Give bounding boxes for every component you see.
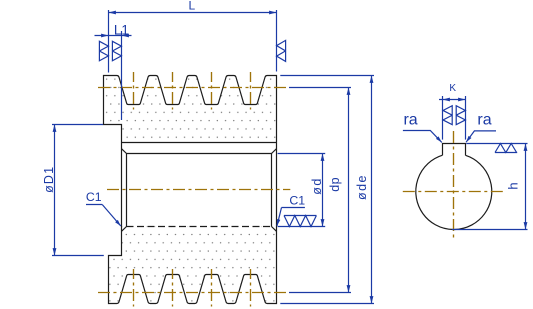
svg-text:C1: C1	[86, 190, 102, 204]
dim h: bottom extension line	[452, 229, 528, 231]
svg-text:ra: ra	[477, 112, 491, 129]
pitch diameter centerline bottom	[98, 292, 289, 294]
ra left: leader	[403, 131, 442, 143]
bore top edge	[127, 153, 272, 155]
dim oD1: top extension line	[52, 124, 103, 126]
dim K: right extension line	[465, 96, 467, 140]
finish symbol pair inside keyway left	[443, 106, 452, 125]
dim K: dimension line	[439, 99, 466, 101]
groove centerline bottom 2	[172, 269, 174, 307]
C1 right: leader underline	[282, 207, 305, 209]
svg-text:L: L	[188, 0, 195, 13]
dim ode: top extension line	[280, 75, 374, 77]
dim od: bottom extension line	[278, 226, 326, 228]
arrow ra right leader	[466, 136, 471, 142]
arrow h top	[524, 144, 528, 151]
dim od: dimension line	[322, 154, 324, 227]
pulley outer profile: 4 V-grooves top and bottom, left recess step	[104, 76, 277, 304]
dim dp: top extension line	[289, 87, 351, 89]
svg-text:ød: ød	[310, 177, 324, 195]
finish symbol pair at L1 left extension	[99, 41, 108, 61]
finish symbol triple-triangle at bore bottom right	[284, 216, 316, 227]
bore chamfer top-left	[122, 149, 127, 154]
arrow ra left leader	[436, 136, 442, 142]
arrow od top	[321, 154, 325, 161]
arrow L left	[109, 11, 116, 15]
ra right: leader	[466, 131, 496, 142]
finish symbol pair at right face extension	[277, 40, 286, 61]
dim L: dimension line	[109, 12, 277, 14]
pitch diameter centerline top	[98, 87, 289, 89]
arrow h bottom	[524, 222, 528, 229]
svg-text:ra: ra	[403, 112, 417, 129]
bore bottom edge (hidden/dashed)	[127, 226, 272, 228]
arrow C1 left leader	[115, 220, 121, 226]
groove centerline top 1	[133, 72, 135, 110]
dim K: left extension line	[442, 96, 444, 140]
arrow dp top	[347, 88, 351, 95]
svg-text:øD1: øD1	[42, 166, 56, 193]
dim L: right extension line	[276, 10, 278, 72]
dim L1: right extension line	[121, 31, 123, 120]
section stipple hatch (material dots, lower band)	[100, 185, 280, 308]
keyway bottom edge line	[122, 142, 277, 144]
svg-text:øde: øde	[355, 174, 369, 200]
groove centerline bottom 3	[211, 269, 213, 307]
C1 right: leader line	[277, 208, 282, 226]
arrow L1 left (outside)	[101, 34, 108, 38]
finish symbol pair at L1 right extension	[112, 41, 121, 61]
dim oD1: bottom extension line	[52, 255, 104, 257]
bore chamfer bottom-right	[272, 227, 277, 232]
detail horizontal centerline	[403, 191, 505, 193]
arrow oD1 top	[53, 125, 57, 132]
arrow C1 right leader	[277, 219, 280, 226]
arrow ode bottom	[370, 296, 374, 303]
dim dp: bottom extension line	[289, 292, 351, 294]
groove centerline top 4	[250, 72, 252, 110]
svg-text:C1: C1	[289, 194, 305, 208]
bore chamfer edge vertical right	[271, 154, 273, 227]
C1 left: leader line	[102, 205, 121, 227]
finish symbol double-triangle on h extension	[495, 144, 517, 153]
DETAIL VIEW: bore with keyway	[416, 144, 492, 230]
svg-text:dp: dp	[328, 177, 342, 192]
finish symbol pair inside keyway right	[456, 106, 465, 125]
dim L: left extension line	[108, 10, 110, 73]
detail vertical centerline	[453, 131, 455, 240]
bore chamfer top-right	[272, 149, 277, 154]
groove centerline top 3	[211, 72, 213, 110]
groove centerline bottom 4	[250, 269, 252, 307]
groove centerline bottom 1	[133, 269, 135, 307]
dim od: top extension line	[278, 153, 326, 155]
dim dp: dimension line	[348, 88, 350, 293]
dim ode: bottom extension line	[280, 303, 374, 305]
svg-text:h: h	[506, 182, 521, 189]
arrow oD1 bottom	[53, 248, 57, 255]
arrow ode top	[370, 76, 374, 83]
dim oD1: dimension line	[54, 125, 56, 256]
groove centerline top 2	[172, 72, 174, 110]
arrow K left (inside)	[443, 98, 450, 102]
C1 left: leader underline	[86, 204, 102, 206]
arrow dp bottom	[347, 285, 351, 292]
bore chamfer edge vertical left	[126, 154, 128, 227]
arrow L right	[269, 11, 276, 15]
svg-text:L1: L1	[114, 22, 129, 37]
dim h: top extension line	[466, 143, 527, 145]
svg-text:K: K	[449, 83, 456, 94]
bore chamfer bottom-left	[122, 227, 127, 232]
bore circle (broken at keyway)	[416, 155, 492, 229]
arrow K right (inside)	[458, 98, 465, 102]
arrow od bottom	[321, 219, 325, 226]
dim h: dimension line	[525, 144, 527, 230]
section stipple hatch (material dots, upper band)	[100, 70, 280, 185]
dim ode: dimension line	[371, 76, 373, 304]
main axis centerline	[107, 189, 290, 191]
arrow L1 right (outside)	[122, 34, 129, 38]
dim L1: dimension line	[95, 35, 132, 37]
keyway slot	[443, 144, 466, 156]
